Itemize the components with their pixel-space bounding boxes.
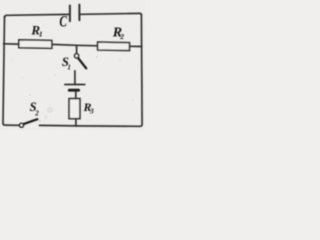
wire left edge	[3, 17, 19, 126]
switch S2 lever (open)	[24, 119, 38, 124]
wire rail R1 to junction	[52, 43, 77, 46]
wire top edge right segment (from capacitor)	[80, 13, 141, 15]
svg-text:1: 1	[39, 30, 43, 39]
wire S1 lower terminal to battery	[74, 71, 76, 84]
svg-text:2: 2	[119, 32, 124, 41]
wire bottom edge right of S2 lever	[40, 124, 77, 127]
svg-text:2: 2	[34, 109, 39, 117]
wire rail junction to R2	[77, 44, 98, 47]
switch S2 contact circle	[20, 123, 24, 127]
wire battery to R3	[75, 91, 77, 98]
resistor R2	[98, 42, 130, 51]
wire middle rail left to R1	[4, 43, 19, 45]
capacitor C right plate	[78, 5, 80, 21]
svg-text:1: 1	[67, 64, 71, 72]
switch S1 lever (open)	[78, 58, 86, 68]
wire R2 to right edge	[130, 45, 142, 47]
wire top edge left segment (to capacitor)	[5, 14, 69, 17]
wire stub junction down to S1	[76, 45, 78, 53]
resistor R3	[69, 99, 80, 119]
battery positive plate (long thin)	[65, 84, 85, 86]
wire R3 to bottom edge	[75, 119, 77, 126]
resistor R1	[19, 40, 52, 49]
svg-text:3: 3	[89, 107, 94, 115]
scan noise speckles	[11, 29, 134, 122]
battery negative plate (short thick)	[69, 89, 78, 92]
capacitor C left plate	[69, 6, 71, 22]
svg-text:C: C	[59, 13, 67, 30]
switch S1 contact circle	[75, 54, 79, 58]
paper background	[0, 0, 145, 130]
wire right edge	[76, 15, 142, 127]
